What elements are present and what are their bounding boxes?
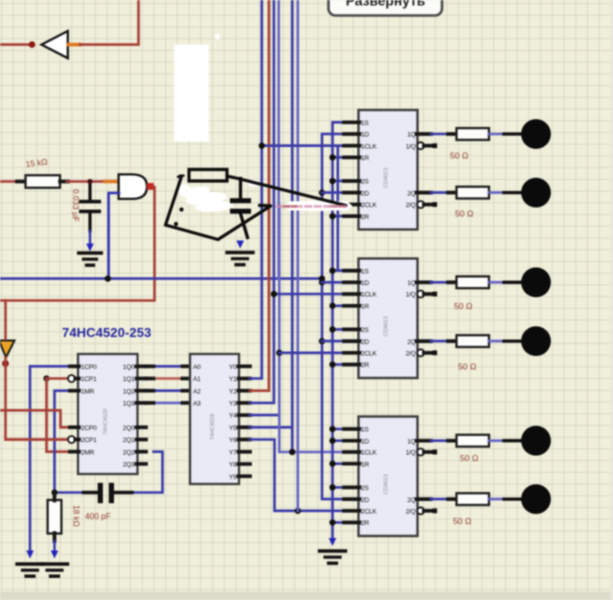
pen upper diagonal to 2CLK [228,176,347,205]
node junctions on data line [319,189,325,195]
node junction at C1 top [87,179,92,184]
svg-text:2CP1: 2CP1 [81,437,97,444]
resistor R4 50 Ohm with output pad [431,191,450,194]
resistor R6 50 Ohm with output pad [431,340,450,343]
svg-text:1CLK: 1CLK [361,292,377,299]
flip-flop U4 CD4013 body [359,417,418,537]
svg-text:1CP1: 1CP1 [81,376,97,383]
wire red to 2CP0 [0,410,70,427]
node junction gate-input on blue bus [105,275,111,281]
pin stub orange at U6 input [105,180,119,184]
nand gate U6 body [119,174,147,199]
wire blue U6 lower input from bus [109,193,119,279]
flip-flop U4 left pins [344,427,360,431]
wire U3 1D from data line [322,281,344,284]
svg-text:1R: 1R [361,461,369,468]
wire U1 2D from data line [322,191,344,194]
svg-text:A0: A0 [193,364,201,371]
svg-text:2CP0: 2CP0 [81,425,97,432]
wire blue R2 to ground G3 [53,541,55,552]
wire Y6 down to U4 2CLK [250,440,344,511]
wire U3 1CLK from bus [274,293,344,296]
label box Razvernut [329,0,443,16]
svg-text:1D: 1D [361,132,369,139]
pen pink dashed line [277,205,346,208]
resistor R2 18k body [48,500,62,534]
svg-text:2D: 2D [361,339,369,346]
capacitor C1 plates [79,200,101,204]
node junction U3 1CLK [271,291,277,297]
wire red input to buffer U5 [0,43,32,46]
node junction U1 1CLK [259,143,265,149]
resistor R1 15k body [26,175,61,188]
pen rectangle annotation [189,170,227,182]
svg-text:50 Ω: 50 Ω [455,209,474,219]
wire 1Q1 to A1 red [146,377,190,380]
svg-text:1Q: 1Q [407,280,415,287]
wire blue node to C3 [55,491,85,494]
flip-flop U4 right pins [417,439,432,443]
svg-text:0.033 µF: 0.033 µF [71,189,81,222]
pin stub left of R1 [17,180,26,184]
wire blue 1CP0 to ground G2 [30,366,70,551]
capacitor C3 plates [98,483,103,503]
resistor R3 50 Ohm with output pad [431,133,450,136]
svg-text:2Q2: 2Q2 [123,449,135,456]
svg-text:2R: 2R [361,214,369,221]
arrow into ground G2 [26,551,34,559]
svg-text:A3: A3 [193,401,201,408]
resistor R2 top stub [53,493,57,501]
svg-text:2S: 2S [361,485,369,492]
svg-text:1D: 1D [361,280,369,287]
flip-flop U3 left pins [344,269,360,273]
flip-flop U1 CD4013 body [359,110,418,230]
wire 1Q2 to A2 [146,389,190,392]
flip-flop U1 right pins [417,132,432,136]
white-out scribble left [175,183,190,194]
white-out small dot [215,34,221,40]
wire red above D1 [4,301,7,340]
pen polygon left edge [166,178,182,225]
svg-text:2CLK: 2CLK [361,509,377,516]
wire 1Q0 to A0 [146,365,190,368]
svg-text:Y9: Y9 [229,474,237,481]
resistor R8 50 Ohm with output pad [431,498,450,501]
wire 1Q3 to A3 [146,402,190,405]
svg-text:2Q: 2Q [407,339,415,346]
svg-text:1CLK: 1CLK [361,143,377,150]
capacitor C3 leads [84,491,99,494]
svg-text:2CLK: 2CLK [361,202,377,209]
svg-text:Y8: Y8 [229,462,237,469]
svg-text:1MR: 1MR [81,388,95,395]
pin stubs between U7 and U8 [146,364,154,368]
wire 1S line U1 to U3 [338,147,344,271]
wire Y4 to clock bus [250,414,279,417]
pen polygon diagonal up [218,206,271,240]
pen dots [178,174,182,178]
svg-text:2D: 2D [361,190,369,197]
wire U3 2D from data line [322,340,344,343]
wire red from U5 up to top edge [80,0,139,45]
capacitor C1 top lead [88,182,91,201]
wire clock bus vertical to U4 1CLK [279,205,344,452]
svg-text:1S: 1S [361,120,369,127]
capacitor C2 top lead [239,179,242,199]
pen hook segment [260,204,271,208]
svg-text:1CP0: 1CP0 [81,364,97,371]
svg-text:50 Ω: 50 Ω [450,151,469,161]
node junction on U4 1CLK wire [289,449,295,455]
flip-flop U3 right pins [417,280,432,284]
svg-text:1Q: 1Q [407,438,415,445]
wire red 1CP1 tie to 2MR [47,377,67,380]
svg-text:1Q1: 1Q1 [123,376,135,383]
svg-text:74HC4520: 74HC4520 [103,409,109,435]
wire Y2 red up to top edge [250,0,269,391]
arrow into ground G3 [51,551,59,559]
ground G1 [79,251,102,254]
svg-text:Y2: Y2 [229,388,237,395]
svg-text:2CLK: 2CLK [361,351,377,358]
svg-text:Развернуть: Развернуть [346,0,426,8]
svg-text:2Q3: 2Q3 [123,462,135,469]
decoder U8 right pins Y0-Y9 [239,364,251,368]
wire U1 1CLK from bus [262,144,344,147]
svg-text:CD4013: CD4013 [384,168,390,188]
wire blue C1 to ground [89,231,91,244]
counter U7 left pins [70,364,79,368]
svg-text:2D: 2D [361,497,369,504]
bottom window edge band [0,592,613,600]
wire red stub to 2CP1 [6,438,67,441]
flip-flop U3 CD4013 body [359,259,418,379]
svg-text:1/Q: 1/Q [406,450,416,457]
svg-text:1Q0: 1Q0 [123,364,135,371]
svg-text:1Q2: 1Q2 [123,388,135,395]
svg-text:Y4: Y4 [229,413,237,420]
svg-text:A1: A1 [193,376,201,383]
wire blue 1MR down to C3 node [55,391,71,493]
resistor R5 50 Ohm with output pad [431,281,450,284]
pin stub orange at U5 [69,43,81,47]
svg-text:50 Ω: 50 Ω [454,301,473,311]
ground G3 [42,562,68,565]
wire Y3 up to top edge [250,0,274,403]
svg-text:1/Q: 1/Q [406,143,416,150]
arrow into ground G1 [86,244,94,252]
ground G5 [227,251,253,254]
node junction at buffer input [29,41,36,48]
svg-text:1R: 1R [361,155,369,162]
wire Y1 up to top edge [250,0,262,379]
resistor R7 50 Ohm with output pad [431,439,450,442]
wire set-reset taps with junctions [333,156,345,159]
svg-text:CD4013: CD4013 [384,316,390,336]
svg-text:2/Q: 2/Q [406,351,416,358]
svg-text:2Q0: 2Q0 [123,425,135,432]
pen polygon bottom edge [166,225,219,240]
ground G2 [17,562,43,565]
svg-text:2S: 2S [361,327,369,334]
capacitor C1 bottom lead [88,213,91,231]
node junction U3 2CLK feed [276,350,282,356]
capacitor C2 plates [230,198,251,203]
svg-text:74HC4520-253: 74HC4520-253 [62,325,151,340]
diode D1 orange triangle [0,341,15,358]
svg-text:50 Ω: 50 Ω [460,453,479,463]
counter U7 74HC4520 body [78,354,138,474]
wire vertical purple bus [296,0,299,511]
pin stub right of R1 [60,180,68,184]
svg-text:2MR: 2MR [81,449,95,456]
node junction below D1 [2,360,9,367]
resistor R2 bottom stub [53,533,57,541]
svg-text:Y6: Y6 [229,437,237,444]
wire red R1 to gate U6 [67,180,106,183]
wire Y5 to bus [250,426,292,429]
arrow into ground G5 [236,241,244,249]
capacitor C2 bottom lead [241,214,248,238]
svg-text:2R: 2R [361,362,369,369]
node junction 1CP1 [43,375,49,381]
wire U3 2CLK from bus [279,351,344,354]
svg-text:1Q3: 1Q3 [123,401,135,408]
counter U7 right pins [137,364,147,368]
svg-text:400 pF: 400 pF [85,511,111,521]
svg-text:50 Ω: 50 Ω [458,362,477,372]
svg-text:1S: 1S [361,268,369,275]
svg-text:1/Q: 1/Q [406,292,416,299]
svg-text:1R: 1R [361,304,369,311]
white-out patch over schematic area [174,45,209,142]
svg-text:2/Q: 2/Q [406,509,416,516]
svg-text:2/Q: 2/Q [406,202,416,209]
buffer U5 (triangle) [42,31,68,58]
svg-text:A2: A2 [193,388,201,395]
wire red to resistor R1 [0,180,19,183]
node junction on U4 2CLK wire [295,508,301,514]
wire 2Q2 to capacitor C3 [132,452,163,493]
svg-text:Y7: Y7 [229,449,237,456]
arrow into ground G4 [329,538,337,546]
svg-text:1D: 1D [361,438,369,445]
wire vertical data line 1D [322,134,344,499]
pen tick [178,176,184,177]
svg-text:Y5: Y5 [229,425,237,432]
ground G4 [320,549,346,552]
decoder U8 body [190,354,239,484]
white-out strip over 2CLK row [286,201,350,210]
svg-text:2Q1: 2Q1 [123,437,135,444]
node junction at R2 top [51,489,57,495]
svg-text:74HC4028: 74HC4028 [210,414,216,440]
right window edge band [610,0,613,600]
svg-text:Y0: Y0 [229,364,237,371]
svg-text:Y1: Y1 [229,376,237,383]
wire red D1 down to 2CP1 row [6,358,67,440]
svg-text:18 kΩ: 18 kΩ [72,505,82,527]
flip-flop U1 left pins [344,120,360,124]
svg-text:1S: 1S [361,427,369,434]
node red square at U6 output [147,183,154,190]
wire blue horizontal bus [0,277,322,280]
wire set-reset line vertical [333,122,345,538]
wire vertical purple bus short [277,0,280,279]
wire vertical bus to U4 1CLK junction [291,0,294,452]
svg-text:2Q: 2Q [407,497,415,504]
svg-text:2S: 2S [361,179,369,186]
svg-text:50 Ω: 50 Ω [453,516,472,526]
svg-text:Y3: Y3 [229,401,237,408]
svg-text:1CLK: 1CLK [361,450,377,457]
svg-text:2Q: 2Q [407,190,415,197]
svg-text:CD4013: CD4013 [384,474,390,494]
svg-text:1Q: 1Q [407,132,415,139]
wire red U6 output down and left to edge [0,187,155,301]
svg-text:2R: 2R [361,520,369,527]
